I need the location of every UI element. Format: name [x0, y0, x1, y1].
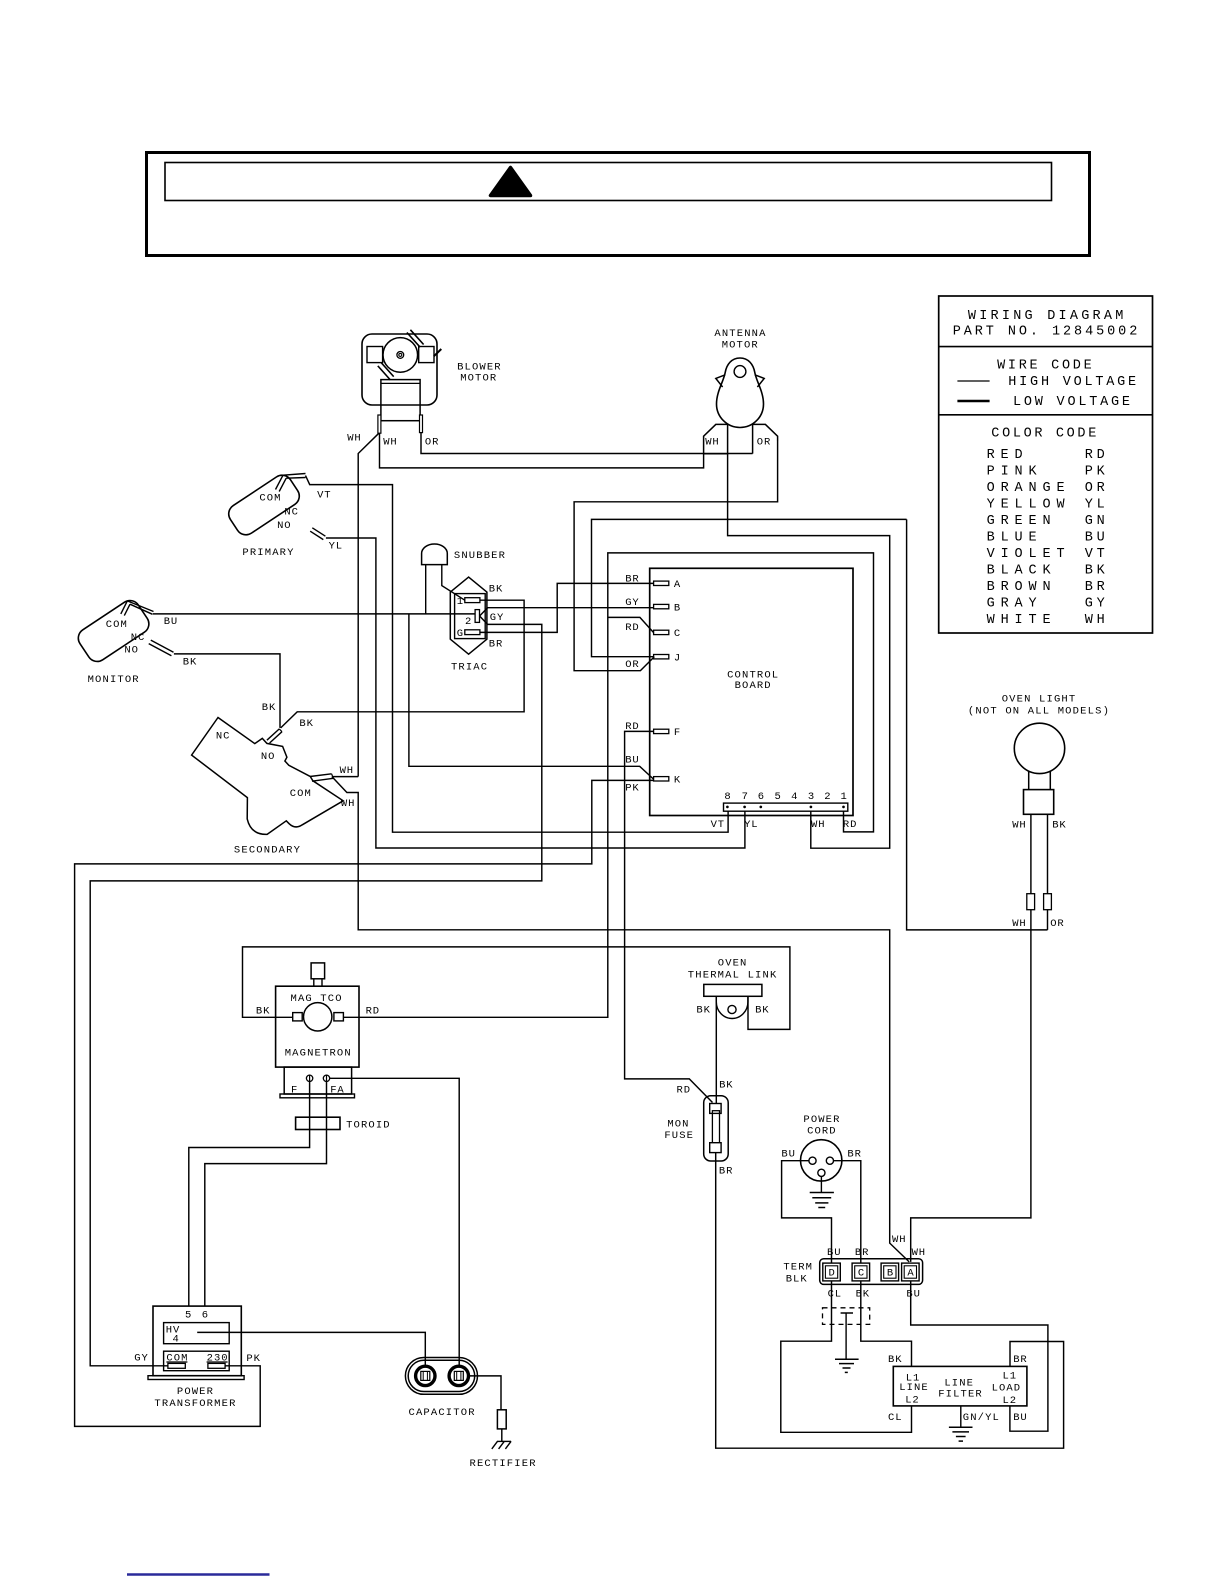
- antenna motor left ear: [716, 375, 725, 387]
- svg-text:RECTIFIER: RECTIFIER: [470, 1458, 537, 1470]
- wire BR power cord to term block C: [834, 1161, 861, 1263]
- svg-text:BK: BK: [256, 1005, 270, 1017]
- capacitor terminal left: [416, 1366, 435, 1385]
- svg-text:WIRE CODE: WIRE CODE: [997, 358, 1092, 373]
- svg-text:WH: WH: [1012, 918, 1025, 930]
- oven light bulb: [1014, 723, 1064, 773]
- svg-text:BLK: BLK: [786, 1274, 808, 1286]
- wire WH secondary COM to term block A: [332, 777, 909, 1262]
- svg-text:WH: WH: [1012, 820, 1025, 832]
- wire HV transformer to capacitor: [197, 1332, 425, 1366]
- rectifier chassis ground symbol: [497, 1440, 511, 1442]
- control board pin B pad: [654, 604, 669, 608]
- term block outline: [820, 1259, 923, 1285]
- svg-text:L2: L2: [1003, 1395, 1017, 1407]
- svg-text:TOROID: TOROID: [346, 1120, 390, 1132]
- magnetron TCO left pad: [293, 1013, 303, 1021]
- svg-text:RD: RD: [843, 819, 857, 831]
- svg-text:LOAD: LOAD: [992, 1383, 1021, 1395]
- svg-text:CL: CL: [828, 1288, 842, 1300]
- legend divider line 1: [939, 346, 1153, 348]
- svg-text:TRIAC: TRIAC: [451, 662, 487, 674]
- power transformer baseplate: [148, 1376, 244, 1380]
- svg-text:J: J: [674, 652, 680, 664]
- svg-text:NO: NO: [261, 751, 275, 763]
- mon fuse outline: [704, 1096, 729, 1161]
- legend divider line 2: [939, 414, 1153, 416]
- wire WH oven light to term block A: [911, 910, 1031, 1262]
- svg-text:BU: BU: [1013, 1412, 1026, 1424]
- blower motor body: [362, 334, 437, 405]
- monitor interlock switch body: [74, 597, 152, 666]
- rectifier body: [497, 1410, 506, 1429]
- triac pin 1 pad: [465, 598, 480, 603]
- oven light BK lead: [1047, 814, 1049, 893]
- blower motor shaft tick: [434, 349, 442, 356]
- svg-text:BR: BR: [1013, 1354, 1027, 1366]
- svg-text:BR: BR: [847, 1148, 861, 1160]
- svg-text:COM: COM: [290, 788, 311, 800]
- svg-text:YL: YL: [744, 819, 758, 831]
- svg-text:L1: L1: [1003, 1371, 1017, 1383]
- mon fuse top cap: [710, 1104, 721, 1114]
- svg-text:WH: WH: [341, 798, 355, 810]
- svg-text:PK: PK: [625, 782, 639, 794]
- svg-text:OR: OR: [757, 437, 771, 449]
- svg-text:OR: OR: [625, 659, 639, 671]
- connector pin 1 dot: [842, 806, 845, 809]
- svg-text:4: 4: [791, 791, 797, 803]
- wire FA to capacitor right terminal: [330, 1078, 459, 1366]
- svg-text:LOW VOLTAGE: LOW VOLTAGE: [1013, 395, 1130, 410]
- svg-text:BK: BK: [299, 718, 313, 730]
- warning triangle symbol: [491, 168, 531, 196]
- wire filament F through toroid to transformer 5: [189, 1082, 310, 1306]
- svg-text:CORD: CORD: [807, 1126, 836, 1138]
- antenna motor WH connector flag: [704, 424, 728, 453]
- oven light OR lead connector: [1044, 894, 1052, 910]
- svg-text:TRANSFORMER: TRANSFORMER: [154, 1398, 236, 1410]
- warning banner inner box: [165, 163, 1052, 201]
- svg-text:B: B: [674, 602, 680, 614]
- triac pin 2 pad: [475, 610, 479, 623]
- optional ground dashed box: [823, 1308, 870, 1325]
- svg-text:D: D: [829, 1268, 835, 1280]
- wire YL primary NO to control board pin 7: [326, 538, 745, 848]
- svg-text:G: G: [457, 628, 463, 640]
- svg-text:RD: RD: [625, 622, 639, 634]
- svg-text:BK: BK: [1052, 820, 1066, 832]
- connector pin 3 dot: [810, 806, 813, 809]
- svg-text:POWER: POWER: [803, 1114, 840, 1126]
- term block cell C: [852, 1263, 870, 1281]
- svg-text:L2: L2: [905, 1395, 919, 1407]
- wire RD control board F to mon fuse: [625, 731, 713, 1102]
- triac Q1 hexagonal outline: [450, 577, 487, 654]
- secondary interlock switch body: [192, 718, 344, 835]
- wire BK magnetron TCO to oven thermal link: [243, 947, 790, 1030]
- svg-text:GY: GY: [490, 612, 504, 624]
- wire GY triac pin 2 to control board B: [480, 608, 654, 616]
- primary switch COM lever: [276, 475, 287, 491]
- svg-text:SECONDARY: SECONDARY: [234, 845, 301, 857]
- wire BU term A to line filter load L2: [911, 1281, 1048, 1431]
- capacitor body inner: [408, 1360, 475, 1391]
- blower motor terminal right: [420, 415, 423, 433]
- monitor switch COM lever: [121, 601, 130, 616]
- svg-text:BR: BR: [489, 639, 503, 651]
- wire VT primary COM to control board pin 8: [306, 476, 729, 833]
- wire BK monitor NO to secondary NO: [174, 654, 280, 728]
- svg-text:PRIMARY: PRIMARY: [242, 547, 294, 559]
- wire BU branch to control board K: [409, 614, 654, 779]
- connector pin 7 dot: [743, 806, 746, 809]
- triac pin G pad: [465, 630, 480, 635]
- svg-text:1: 1: [841, 791, 847, 803]
- blower motor terminal left: [378, 415, 381, 433]
- svg-text:GN/YL: GN/YL: [963, 1412, 999, 1424]
- wire BR mon fuse to line filter load L1: [716, 1153, 1064, 1449]
- svg-text:BK: BK: [696, 1005, 710, 1017]
- oven light bulb neck: [1028, 771, 1030, 789]
- snubber body: [422, 544, 448, 565]
- wire WH antenna to control board pin 3: [728, 454, 890, 848]
- svg-text:A: A: [907, 1268, 914, 1280]
- monitor switch NO lever: [151, 640, 174, 652]
- svg-text:BU: BU: [781, 1148, 795, 1160]
- control board outline: [650, 568, 853, 815]
- svg-text:VT: VT: [711, 819, 725, 831]
- mon fuse body: [712, 1111, 719, 1145]
- wire snubber right lead to triac pin 1: [442, 565, 465, 601]
- svg-text:B: B: [887, 1268, 893, 1280]
- secondary switch COM lever: [310, 774, 332, 777]
- blower motor left pole piece: [367, 347, 383, 363]
- svg-text:(NOT ON ALL MODELS): (NOT ON ALL MODELS): [968, 706, 1109, 718]
- wire BU power cord to term block D: [782, 1161, 832, 1263]
- control board bottom connector strip: [724, 803, 848, 811]
- wire BR triac pin G to control board A: [480, 583, 654, 632]
- wire CL term D to line filter line L2: [781, 1281, 912, 1432]
- optional ground stem: [841, 1313, 853, 1359]
- primary interlock switch body: [225, 471, 303, 538]
- transformer COM terminal pad: [168, 1363, 185, 1368]
- svg-text:K: K: [674, 775, 681, 787]
- svg-text:RD: RD: [677, 1085, 691, 1097]
- rectifier lead: [501, 1429, 503, 1442]
- svg-text:3: 3: [808, 791, 814, 803]
- svg-text:6: 6: [758, 791, 764, 803]
- svg-text:MAGNETRON: MAGNETRON: [285, 1048, 351, 1060]
- svg-text:BU: BU: [906, 1288, 920, 1300]
- svg-text:GY: GY: [134, 1352, 148, 1364]
- legend high voltage sample line: [957, 380, 989, 382]
- antenna motor pear-shaped body: [717, 358, 764, 427]
- svg-text:6: 6: [202, 1310, 208, 1322]
- blower motor hatch marks bottom left: [381, 363, 394, 377]
- antenna motor OR connector flag: [753, 424, 778, 453]
- oven thermal link U loop: [716, 996, 748, 1018]
- legend low voltage sample line: [957, 400, 989, 403]
- warning banner outer frame: [147, 153, 1090, 256]
- svg-text:NC: NC: [131, 632, 145, 644]
- svg-text:NC: NC: [216, 731, 230, 743]
- svg-text:OR: OR: [1050, 918, 1064, 930]
- wire BK thermal link left lead to mon fuse: [715, 996, 717, 1103]
- toroid body: [296, 1117, 340, 1129]
- wire capacitor to rectifier: [469, 1376, 502, 1410]
- svg-text:WH: WH: [383, 437, 397, 449]
- connector pin 6 dot: [760, 806, 763, 809]
- svg-text:2: 2: [465, 616, 471, 628]
- wire OR blower terminal to antenna OR flag: [421, 433, 753, 454]
- svg-text:BK: BK: [489, 583, 503, 595]
- wire OR control board J to oven light: [592, 519, 907, 656]
- blower motor hatch marks top right: [407, 333, 420, 348]
- wire OR antenna flag to control board J: [574, 441, 778, 671]
- svg-text:WH: WH: [340, 765, 354, 777]
- svg-text:COM: COM: [259, 493, 280, 505]
- svg-text:MON: MON: [667, 1118, 688, 1130]
- svg-text:WH: WH: [892, 1234, 906, 1246]
- svg-text:BK: BK: [856, 1288, 870, 1300]
- oven thermal link body: [704, 984, 762, 996]
- magnetron antenna stem: [314, 979, 322, 986]
- svg-text:BU: BU: [164, 616, 178, 628]
- svg-text:PK: PK: [246, 1353, 260, 1365]
- magnetron filament terminal F: [306, 1075, 312, 1081]
- blower motor fan circle: [383, 338, 418, 373]
- svg-text:1: 1: [457, 596, 463, 608]
- wire RD branch into pin C: [608, 617, 654, 632]
- power cord pin left: [809, 1157, 816, 1164]
- capacitor terminal right: [449, 1366, 468, 1385]
- svg-text:BR: BR: [855, 1247, 869, 1259]
- svg-text:BK: BK: [262, 702, 276, 714]
- svg-text:NO: NO: [124, 645, 137, 657]
- legend box frame: [939, 296, 1153, 633]
- antenna motor shaft circle: [734, 366, 746, 378]
- svg-text:C: C: [858, 1268, 864, 1280]
- control board pin A pad: [654, 581, 669, 585]
- svg-text:POWER: POWER: [177, 1386, 214, 1398]
- wire snubber left lead to BU node: [425, 565, 427, 614]
- control board pin J pad: [654, 655, 669, 659]
- capacitor body outer: [405, 1358, 477, 1395]
- triac inner rectangle: [455, 594, 486, 639]
- magnetron box: [276, 986, 359, 1067]
- wire WH blower terminal down to antenna WH flag: [380, 433, 704, 468]
- svg-text:7: 7: [742, 791, 748, 803]
- svg-text:2: 2: [824, 791, 830, 803]
- wire GY triac pin 2 to transformer COM: [90, 616, 542, 1366]
- svg-text:COM: COM: [106, 619, 127, 631]
- power transformer box: [153, 1306, 241, 1376]
- wire WH blower terminal to secondary COM via left drop: [358, 433, 379, 776]
- svg-text:BU: BU: [827, 1247, 841, 1259]
- svg-text:8: 8: [724, 791, 730, 803]
- wire filament FA through toroid to transformer 6: [205, 1082, 327, 1306]
- svg-text:RED: RED: [987, 448, 1023, 463]
- power transformer HV winding box: [164, 1323, 230, 1344]
- oven light WH lead connector: [1027, 894, 1035, 910]
- svg-text:NC: NC: [284, 506, 298, 518]
- svg-text:BK: BK: [755, 1005, 769, 1017]
- control board pin F pad: [654, 729, 669, 733]
- wire BU monitor COM to triac pin 2: [153, 613, 475, 615]
- svg-text:CL: CL: [888, 1412, 902, 1424]
- magnetron filament section: [284, 1067, 351, 1094]
- power transformer primary box: [164, 1351, 230, 1371]
- svg-text:PART NO. 12845002: PART NO. 12845002: [953, 325, 1138, 340]
- wire WH secondary COM junction jog: [332, 776, 358, 778]
- svg-text:THERMAL LINK: THERMAL LINK: [688, 969, 777, 981]
- svg-text:NO: NO: [277, 520, 291, 532]
- line filter ground symbol: [960, 1406, 962, 1427]
- svg-text:MONITOR: MONITOR: [88, 674, 140, 686]
- oven thermal link circle: [728, 1005, 736, 1013]
- wire BK term C to line filter line L1: [861, 1281, 912, 1367]
- term block cell D: [823, 1263, 841, 1281]
- svg-text:MOTOR: MOTOR: [460, 372, 497, 384]
- svg-text:ANTENNA: ANTENNA: [714, 328, 766, 340]
- line filter box: [893, 1366, 1027, 1406]
- svg-text:VT: VT: [317, 489, 331, 501]
- magnetron baseplate: [280, 1094, 355, 1098]
- svg-text:F: F: [674, 727, 680, 739]
- svg-text:BK: BK: [719, 1080, 733, 1092]
- power cord ground symbol: [820, 1176, 822, 1192]
- wire BK triac pin 1 to secondary NO: [281, 600, 524, 728]
- svg-text:OVEN: OVEN: [718, 958, 747, 970]
- control board pin C pad: [654, 630, 669, 634]
- oven light WH lead: [1030, 814, 1032, 893]
- wire RD control board pin 1 to pin C and magnetron TCO: [343, 553, 873, 1017]
- control board pin K pad: [654, 777, 669, 781]
- power cord pin earth: [818, 1169, 825, 1176]
- svg-text:BK: BK: [888, 1354, 902, 1366]
- svg-text:SNUBBER: SNUBBER: [454, 550, 506, 562]
- power cord pin right: [826, 1157, 833, 1164]
- footer blue line: [127, 1573, 270, 1575]
- svg-text:BK: BK: [183, 656, 197, 668]
- magnetron antenna cap: [311, 963, 325, 979]
- term block cell B: [881, 1263, 899, 1281]
- svg-text:WH: WH: [705, 437, 719, 449]
- magnetron filament terminal FA: [323, 1075, 329, 1081]
- term block cell A: [902, 1263, 920, 1281]
- svg-text:BU: BU: [625, 754, 639, 766]
- svg-text:FILTER: FILTER: [938, 1389, 982, 1401]
- magnetron TCO circle: [304, 1003, 332, 1031]
- power cord plug circle: [801, 1140, 842, 1181]
- svg-text:LINE: LINE: [899, 1382, 928, 1394]
- svg-text:RD: RD: [366, 1005, 380, 1017]
- svg-text:BOARD: BOARD: [735, 680, 771, 692]
- svg-text:CAPACITOR: CAPACITOR: [409, 1407, 476, 1419]
- magnetron TCO right pad: [334, 1013, 344, 1021]
- antenna motor right ear: [755, 375, 764, 387]
- blower motor duct: [381, 380, 420, 421]
- transformer 230 terminal pad: [208, 1363, 225, 1368]
- svg-text:5: 5: [185, 1310, 191, 1322]
- connector pin 8 dot: [726, 806, 729, 809]
- svg-text:C: C: [674, 628, 680, 640]
- svg-text:WH: WH: [347, 433, 361, 445]
- svg-text:BR: BR: [719, 1165, 733, 1177]
- svg-text:TERM: TERM: [783, 1262, 812, 1274]
- svg-text:A: A: [674, 579, 681, 591]
- blower motor right pole piece: [419, 347, 434, 363]
- mon fuse bottom cap: [710, 1143, 721, 1153]
- wire OR oven light down to J net: [1047, 910, 1049, 930]
- svg-text:5: 5: [775, 791, 781, 803]
- primary switch NO lever: [312, 528, 325, 536]
- secondary switch NO lever: [267, 729, 279, 740]
- svg-text:WH: WH: [811, 819, 825, 831]
- svg-text:MOTOR: MOTOR: [722, 340, 759, 352]
- svg-text:4: 4: [173, 1334, 179, 1346]
- optional ground symbol: [835, 1358, 859, 1360]
- svg-text:OR: OR: [425, 436, 439, 448]
- oven light bulb base: [1024, 790, 1054, 815]
- svg-text:OVEN LIGHT: OVEN LIGHT: [1002, 694, 1075, 706]
- svg-text:FUSE: FUSE: [664, 1130, 693, 1142]
- svg-text:WH: WH: [912, 1247, 926, 1259]
- svg-text:YL: YL: [329, 541, 343, 553]
- wire PK transformer 230 to control board K: [75, 780, 654, 1426]
